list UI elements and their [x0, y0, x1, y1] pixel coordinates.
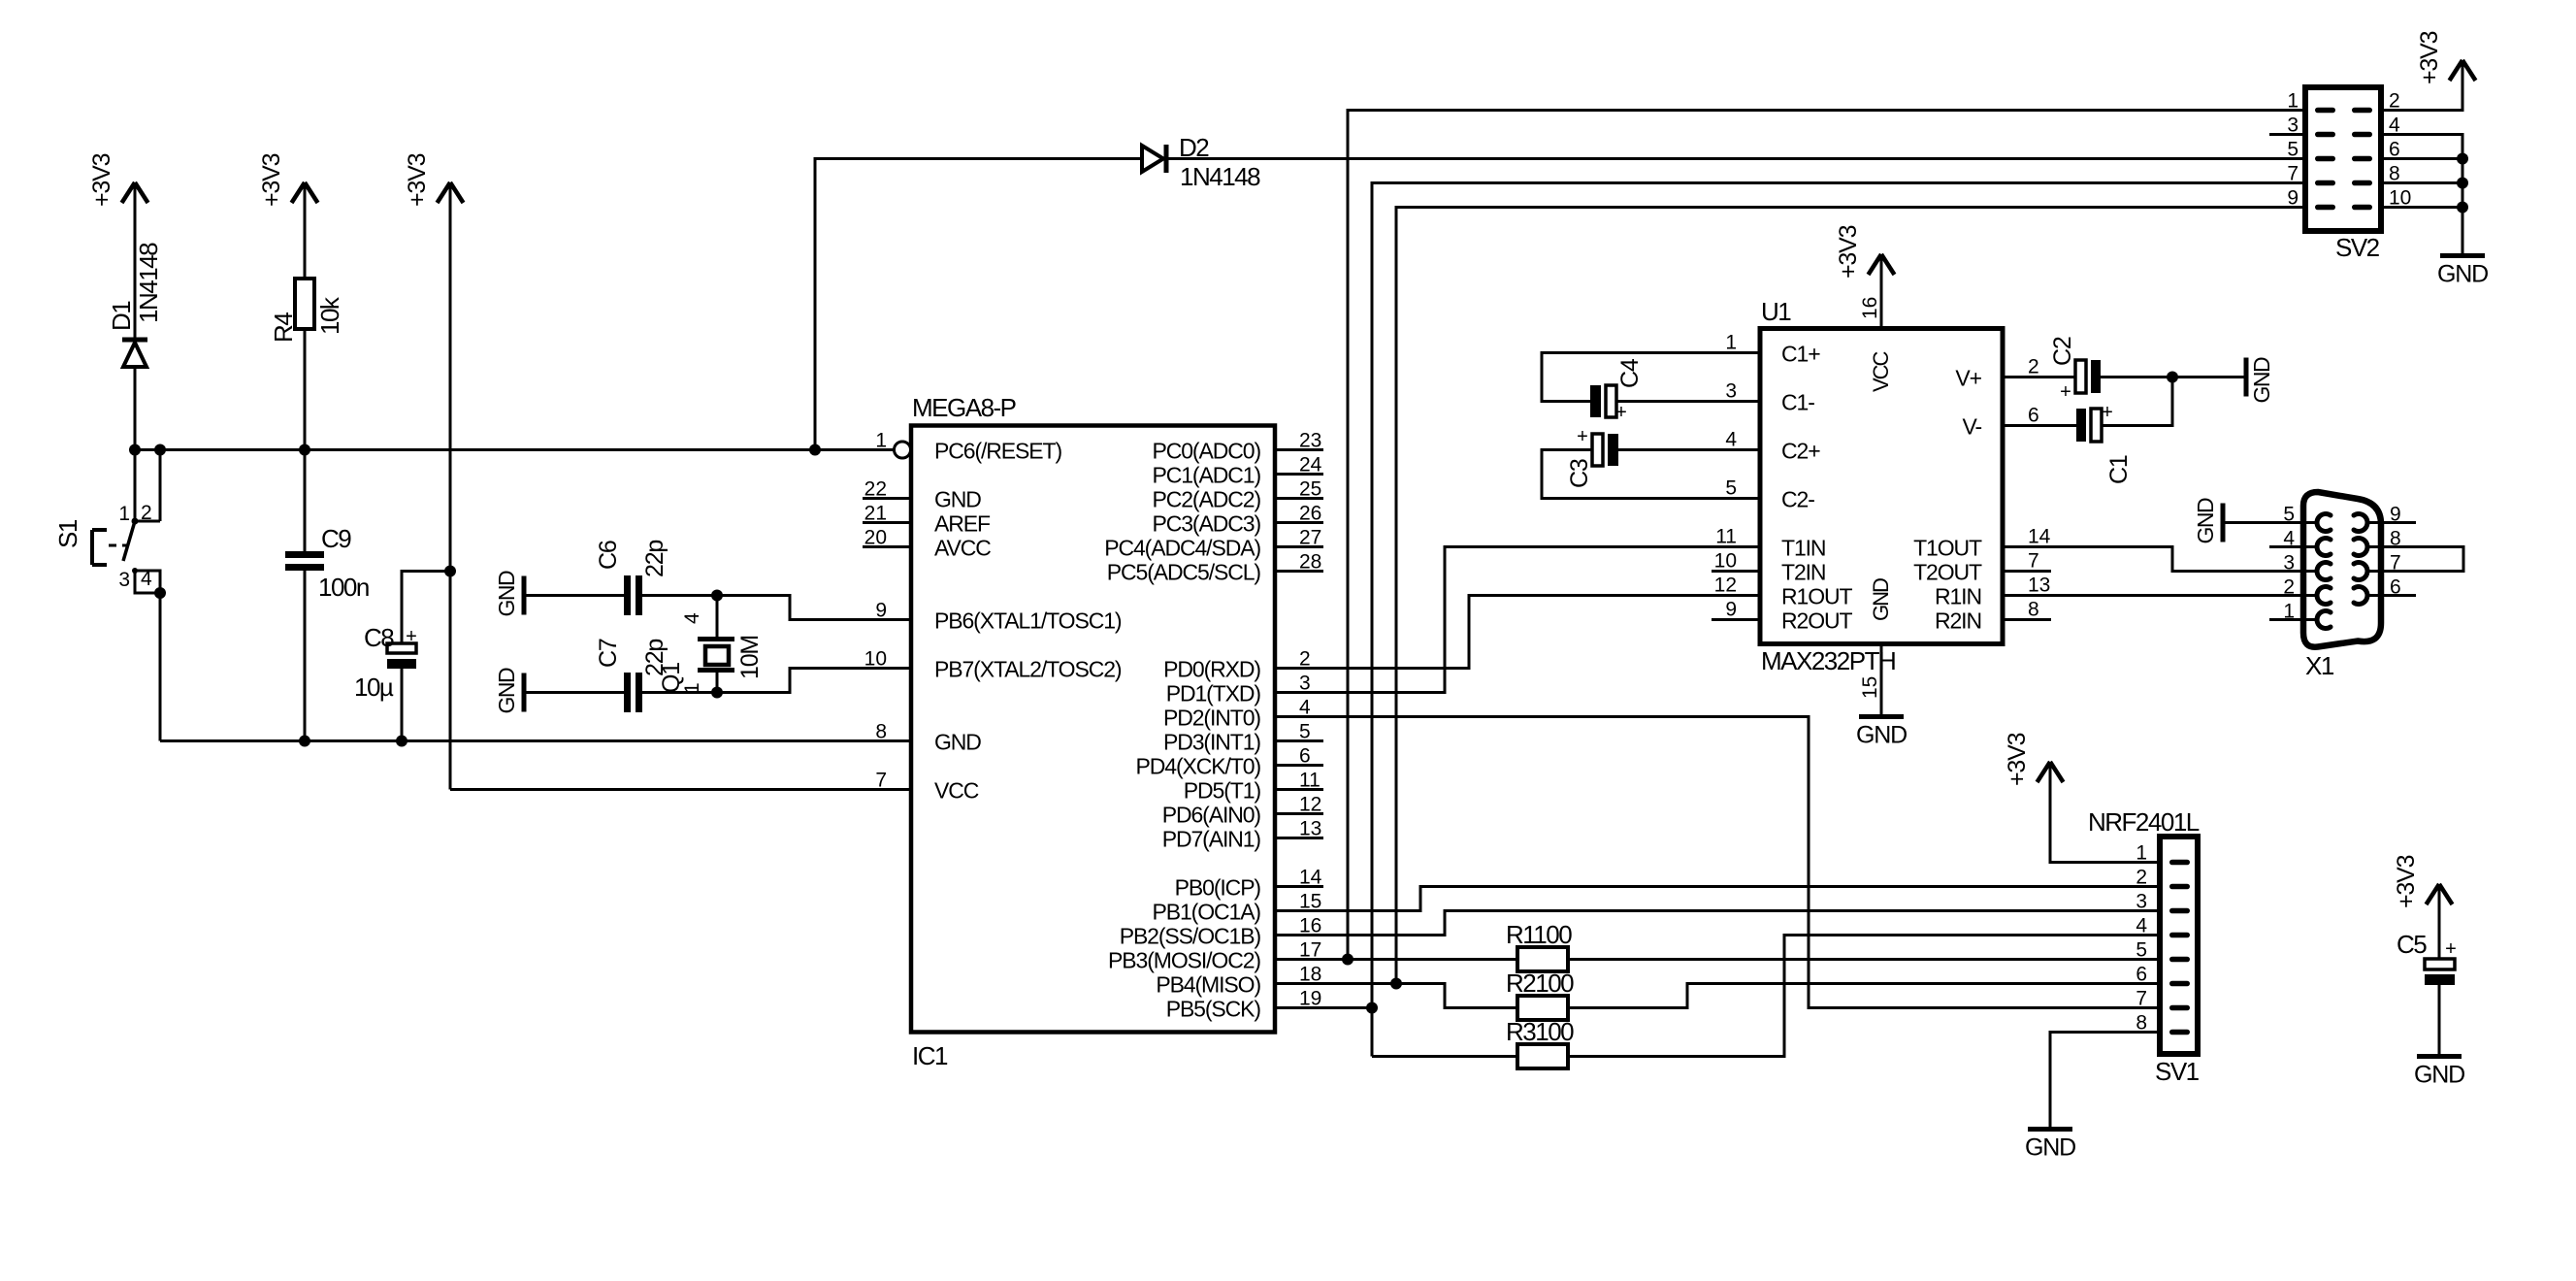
diode D1 [122, 340, 147, 367]
wire VCC to IC1 pin 7 [450, 788, 911, 791]
svg-text:PD6(AIN0): PD6(AIN0) [1162, 803, 1261, 828]
wire R1 to SV1 pin 5 [1568, 958, 2160, 961]
svg-text:GND: GND [1856, 722, 1907, 749]
wire rail to D2 [815, 159, 1142, 450]
svg-text:22: 22 [864, 478, 887, 501]
svg-text:9: 9 [1725, 599, 1737, 621]
svg-text:2: 2 [2283, 576, 2295, 599]
diode D2 [1142, 145, 1166, 173]
power +3V3 arrow (C5) [2427, 884, 2453, 904]
svg-text:4: 4 [2283, 528, 2295, 550]
wire U1 C2- loop [1542, 450, 1760, 499]
svg-text:9: 9 [2287, 187, 2299, 210]
pin mark SV1 3 [2169, 908, 2190, 914]
resistor R1 [1517, 947, 1568, 971]
pin contact X1 2 (left arc) [2317, 587, 2331, 605]
svg-text:3: 3 [2136, 891, 2147, 913]
svg-text:GND: GND [494, 668, 519, 714]
pin mark SV1 2 [2169, 884, 2190, 890]
svg-text:R2OUT: R2OUT [1781, 608, 1853, 634]
svg-text:4: 4 [2136, 915, 2147, 937]
svg-text:16: 16 [1859, 297, 1881, 319]
wire SV2 pin 4 to GND [2381, 135, 2462, 256]
svg-text:6: 6 [2390, 576, 2401, 599]
junction SCK [1366, 1002, 1378, 1014]
svg-text:3: 3 [2283, 552, 2295, 575]
svg-text:U1: U1 [1761, 297, 1791, 326]
wire IC1 pin 18 PB4/MISO to R2 [1275, 984, 1517, 1008]
junction XTAL2 node [711, 687, 723, 699]
svg-text:+3V3: +3V3 [88, 153, 115, 207]
pin stub 20 (IC1) [863, 545, 911, 548]
wire +3V3 to C5 [2438, 884, 2441, 959]
svg-text:+: + [1577, 426, 1588, 447]
wire SV2 pin 8 [2381, 181, 2462, 184]
svg-text:C8: C8 [364, 623, 394, 652]
pin stub X1 pin 4 [2269, 545, 2319, 548]
junction SV2 pin 6 [2457, 153, 2468, 165]
svg-text:+: + [2060, 381, 2071, 403]
svg-text:5: 5 [2136, 939, 2147, 962]
svg-text:8: 8 [875, 721, 887, 743]
pin stub 25 (IC1) [1275, 497, 1323, 500]
svg-text:7: 7 [875, 770, 887, 792]
svg-text:PC3(ADC3): PC3(ADC3) [1152, 511, 1260, 537]
power +3V3 arrow (VCC branch) [438, 182, 464, 203]
svg-text:20: 20 [864, 527, 887, 549]
svg-text:5: 5 [2287, 139, 2299, 161]
wire U1 V- to C1 [2003, 424, 2076, 427]
svg-text:+3V3: +3V3 [2004, 733, 2031, 786]
svg-text:PC0(ADC0): PC0(ADC0) [1152, 439, 1260, 464]
svg-text:T1IN: T1IN [1781, 536, 1825, 561]
ground GND (U1) [1856, 717, 1907, 749]
capacitor C7 [624, 673, 642, 712]
wire C9 to GND rail [304, 571, 307, 741]
svg-text:+3V3: +3V3 [258, 153, 285, 207]
svg-text:+3V3: +3V3 [2416, 31, 2443, 84]
wire +3V3 to D1 [134, 182, 137, 338]
pin stub X1 pin 6 [2365, 594, 2416, 597]
svg-text:1: 1 [2287, 90, 2299, 113]
svg-text:14: 14 [1299, 867, 1322, 889]
pin stub 27 (IC1) [1275, 545, 1323, 548]
svg-text:GND: GND [2414, 1062, 2464, 1089]
wire R2 to SV1 pin 6 [1568, 984, 2160, 1008]
net rail RESET [135, 448, 894, 451]
svg-text:PC2(ADC2): PC2(ADC2) [1152, 487, 1260, 512]
pin contact X1 1 (left arc) [2317, 611, 2331, 629]
pin contact X1 8 (right arc) [2354, 539, 2367, 556]
svg-text:13: 13 [1299, 818, 1321, 840]
ground GND (C6) [494, 571, 524, 617]
pin mark SV1 6 [2169, 981, 2190, 987]
svg-text:15: 15 [1859, 676, 1881, 699]
svg-text:11: 11 [1715, 526, 1737, 548]
svg-text:PB4(MISO): PB4(MISO) [1156, 972, 1260, 998]
svg-text:1: 1 [681, 682, 703, 694]
resistor R2 [1517, 996, 1568, 1020]
wire IC1 pin 16 PB2 to SV1 pin 3 [1275, 911, 2160, 936]
svg-text:+: + [2102, 402, 2113, 423]
wire C7 to XTAL2 node [642, 691, 717, 694]
svg-text:C1-: C1- [1781, 390, 1814, 415]
svg-text:X1: X1 [2305, 651, 2334, 680]
svg-text:C3: C3 [1566, 459, 1593, 488]
pin stub T2IN (U1) [1712, 570, 1760, 573]
svg-text:1: 1 [875, 430, 887, 452]
svg-text:GND: GND [934, 487, 981, 512]
svg-text:1: 1 [1725, 332, 1737, 354]
svg-text:7: 7 [2390, 552, 2401, 575]
pin stub 13 (IC1) [1275, 837, 1323, 839]
svg-text:26: 26 [1299, 503, 1321, 525]
svg-text:+: + [406, 626, 417, 647]
pin stub 22 (IC1) [863, 497, 911, 500]
svg-text:100n: 100n [318, 573, 369, 602]
svg-text:T1OUT: T1OUT [1913, 536, 1982, 561]
wire GND to X1 pin 5 [2223, 521, 2319, 524]
pin stub 12 (IC1) [1275, 812, 1323, 815]
wire SV2 pin 2 to +3V3 [2381, 60, 2462, 111]
wire C5 to GND [2438, 985, 2441, 1057]
svg-text:+: + [1615, 402, 1627, 423]
wire C8 to GND rail [401, 669, 404, 741]
capacitor C4 [1590, 385, 1616, 417]
svg-text:PD2(INT0): PD2(INT0) [1163, 706, 1260, 731]
svg-text:NRF2401L: NRF2401L [2088, 807, 2200, 837]
svg-text:13: 13 [2028, 575, 2050, 597]
svg-text:C2+: C2+ [1781, 439, 1820, 464]
svg-text:C4: C4 [1616, 358, 1644, 388]
wire U1 C1+ loop [1542, 353, 1760, 402]
wire +3V3 to R4 [304, 182, 307, 279]
wire IC1 pin 3 TXD to U1 T1IN [1275, 547, 1760, 693]
svg-text:6: 6 [2136, 964, 2147, 986]
svg-text:GND: GND [2249, 357, 2274, 404]
ground GND (C5) [2414, 1057, 2464, 1089]
junction R4/rail [299, 444, 310, 456]
wire IC1 pin 4 INT0 to SV1 pin 7 [1275, 717, 2160, 1008]
wire +3V3 VCC vertical [449, 182, 452, 790]
wire X1 pin 8 to pin 7 [2365, 547, 2463, 572]
resistor R4 [295, 279, 314, 329]
pin stub R2IN (U1) [2003, 618, 2051, 621]
junction VCC/C8 [444, 566, 456, 577]
svg-text:GND: GND [2193, 498, 2218, 544]
svg-text:7: 7 [2287, 163, 2299, 185]
svg-text:+3V3: +3V3 [1835, 225, 1862, 279]
svg-text:7: 7 [2136, 988, 2147, 1010]
wire C4 to U1 C1- [1616, 400, 1760, 403]
pin mark SV2 8 [2352, 181, 2372, 186]
svg-text:R3100: R3100 [1506, 1017, 1574, 1046]
svg-text:PB6(XTAL1/TOSC1): PB6(XTAL1/TOSC1) [934, 608, 1122, 634]
svg-text:C6: C6 [595, 541, 622, 570]
pin mark SV2 9 [2315, 205, 2335, 211]
pin mark SV1 5 [2169, 957, 2190, 963]
svg-text:R1OUT: R1OUT [1781, 584, 1853, 609]
pin stub 6 (IC1) [1275, 764, 1323, 767]
svg-text:+3V3: +3V3 [404, 153, 431, 207]
wire U1 V+ to C2 [2003, 376, 2075, 378]
svg-text:S1: S1 [53, 519, 82, 548]
svg-text:10µ: 10µ [354, 673, 394, 702]
connector X1 body [2303, 492, 2381, 647]
capacitor C6 [624, 575, 642, 615]
pin mark SV2 4 [2352, 132, 2372, 138]
svg-text:PD4(XCK/T0): PD4(XCK/T0) [1136, 754, 1261, 779]
ground GND (SV1) [2025, 1130, 2075, 1162]
svg-text:4: 4 [141, 568, 152, 590]
IC U1 MAX232PTH body [1760, 329, 2003, 644]
wire IC1 pin 15 PB1 to SV1 pin 2 [1275, 887, 2160, 911]
svg-text:R1IN: R1IN [1935, 584, 1981, 609]
pin contact X1 5 (left arc) [2317, 514, 2331, 532]
pin contact X1 6 (right arc) [2354, 587, 2367, 605]
svg-text:6: 6 [2028, 405, 2039, 427]
svg-text:PD7(AIN1): PD7(AIN1) [1162, 827, 1261, 852]
pin mark SV2 7 [2315, 181, 2335, 186]
IC IC1 MEGA8-P body [911, 426, 1275, 1033]
connector SV1 body [2160, 837, 2198, 1054]
wire S1 pin4 to GND rail [159, 593, 162, 741]
pin mark SV1 8 [2169, 1030, 2190, 1035]
net rail GND [160, 739, 911, 742]
svg-text:R2IN: R2IN [1935, 608, 1981, 634]
junction XTAL1 node [711, 590, 723, 602]
svg-text:1: 1 [118, 503, 130, 525]
pin stub 23 (IC1) [1275, 448, 1323, 451]
pin stub 5 (IC1) [1275, 739, 1323, 742]
wire +3V3 to SV1 pin 1 [2050, 762, 2160, 863]
pin mark SV2 10 [2352, 205, 2372, 211]
pin mark SV2 6 [2352, 156, 2372, 162]
power +3V3 arrow (R4 branch) [292, 182, 318, 203]
pin stub 14 (IC1) [1275, 885, 1323, 888]
svg-text:PD3(INT1): PD3(INT1) [1163, 730, 1260, 755]
svg-text:GND: GND [1869, 578, 1893, 621]
pin mark SV1 1 [2169, 860, 2190, 866]
svg-text:PC1(ADC1): PC1(ADC1) [1152, 463, 1260, 488]
svg-text:GND: GND [2025, 1134, 2075, 1162]
svg-text:5: 5 [1725, 477, 1737, 500]
pin stub 26 (IC1) [1275, 521, 1323, 524]
power +3V3 arrow (SV1) [2038, 762, 2064, 782]
wire D2 to SV2 pin 5 [1167, 157, 2305, 160]
wire IC1 pin 2 RXD to U1 R1OUT [1275, 596, 1760, 669]
svg-text:+: + [2445, 938, 2457, 960]
wire C1 to junction [2102, 378, 2172, 426]
junction C8/GND rail [396, 736, 408, 747]
wire SV2 pin 6 [2381, 157, 2462, 160]
wire R3 to SV1 pin 4 [1568, 936, 2160, 1057]
svg-text:IC1: IC1 [912, 1041, 948, 1070]
wire rail to C9 [304, 450, 307, 552]
svg-text:3: 3 [1725, 380, 1737, 403]
svg-text:4: 4 [1725, 429, 1737, 451]
svg-text:8: 8 [2390, 528, 2401, 550]
wire SV2 pin 7 to IC1 pin 19 (SCK) [1372, 183, 2305, 1057]
junction D2 branch/rail [809, 444, 821, 456]
svg-text:PB7(XTAL2/TOSC2): PB7(XTAL2/TOSC2) [934, 657, 1122, 682]
wire U1 T1OUT to X1 pin 3 [2003, 547, 2319, 572]
connector SV2 body [2305, 87, 2381, 231]
pin stub X1 pin 1 [2269, 618, 2319, 621]
pin mark SV2 2 [2352, 108, 2372, 114]
svg-text:24: 24 [1299, 454, 1322, 476]
capacitor C8 [387, 643, 416, 669]
svg-text:PB3(MOSI/OC2): PB3(MOSI/OC2) [1108, 948, 1260, 973]
power +3V3 arrow (D1 branch) [122, 182, 148, 203]
svg-text:GND: GND [934, 730, 981, 755]
svg-text:GND: GND [2437, 261, 2488, 288]
svg-text:28: 28 [1299, 551, 1321, 574]
svg-text:4: 4 [681, 612, 703, 624]
svg-text:10M: 10M [736, 636, 764, 679]
pin mark SV2 5 [2315, 156, 2335, 162]
wire GND to C7 [524, 691, 624, 694]
svg-text:1N4148: 1N4148 [134, 243, 163, 323]
svg-text:V-: V- [1962, 414, 1981, 440]
svg-text:C2: C2 [2049, 337, 2076, 366]
svg-text:10: 10 [1714, 550, 1737, 573]
svg-text:VCC: VCC [934, 778, 979, 804]
wire IC1 pin 17 PB3 to R1 [1275, 958, 1517, 961]
svg-text:PB2(SS/OC1B): PB2(SS/OC1B) [1120, 924, 1261, 949]
svg-text:11: 11 [1299, 770, 1321, 792]
svg-text:T2IN: T2IN [1781, 560, 1825, 585]
wire SV1 pin 8 to GND [2050, 1033, 2160, 1130]
svg-text:22p: 22p [641, 541, 668, 577]
pin mark SV1 7 [2169, 1005, 2190, 1011]
wire XTAL1 to IC1 pin 9 [717, 596, 911, 620]
svg-text:SV1: SV1 [2155, 1057, 2200, 1086]
svg-text:C5: C5 [2397, 930, 2427, 959]
pin mark SV1 4 [2169, 933, 2190, 938]
pin 1 inversion bubble (IC1) [895, 442, 911, 458]
ground GND (SV2) [2437, 256, 2488, 288]
svg-text:T2OUT: T2OUT [1913, 560, 1982, 585]
svg-text:MAX232PTH: MAX232PTH [1761, 646, 1895, 675]
svg-text:23: 23 [1299, 430, 1321, 452]
svg-text:7: 7 [2028, 550, 2039, 573]
pin mark SV2 1 [2315, 108, 2335, 114]
pin stub 24 (IC1) [1275, 473, 1323, 476]
pin stub T2OUT (U1) [2003, 570, 2051, 573]
power +3V3 arrow (SV2) [2450, 60, 2476, 81]
svg-text:12: 12 [1299, 794, 1321, 816]
capacitor C3 [1592, 434, 1618, 466]
pin contact X1 7 (right arc) [2354, 563, 2367, 580]
svg-text:+3V3: +3V3 [2393, 855, 2420, 908]
junction C9/GND rail [299, 736, 310, 747]
wire U1 R1IN to X1 pin 2 [2003, 594, 2319, 597]
svg-text:PB5(SCK): PB5(SCK) [1166, 997, 1261, 1022]
svg-text:PD5(T1): PD5(T1) [1184, 778, 1261, 804]
wire SV2 pin 9 to IC1 pin 18 (MISO) [1396, 208, 2305, 984]
svg-text:VCC: VCC [1869, 350, 1893, 392]
capacitor C1 [2076, 409, 2102, 442]
svg-text:V+: V+ [1955, 366, 1981, 391]
svg-text:D1: D1 [107, 301, 136, 331]
svg-text:C1: C1 [2105, 455, 2133, 484]
svg-text:5: 5 [1299, 721, 1311, 743]
pin contact X1 9 (right arc) [2354, 514, 2367, 532]
pin contact X1 4 (left arc) [2317, 539, 2331, 556]
svg-text:1N4148: 1N4148 [1180, 162, 1260, 191]
svg-text:25: 25 [1299, 478, 1321, 501]
svg-text:9: 9 [2390, 504, 2401, 526]
wire C6 to XTAL1 node [642, 594, 717, 597]
svg-text:1: 1 [2283, 601, 2295, 623]
svg-text:AVCC: AVCC [934, 536, 991, 561]
svg-text:C7: C7 [595, 639, 622, 668]
svg-text:GND: GND [494, 571, 519, 617]
svg-text:PD1(TXD): PD1(TXD) [1166, 681, 1261, 706]
crystal Q1 [698, 596, 734, 693]
wire C2 to GND [2101, 376, 2246, 378]
wire XTAL2 to IC1 pin 10 [717, 669, 911, 693]
svg-text:PD0(RXD): PD0(RXD) [1163, 657, 1260, 682]
svg-text:5: 5 [2283, 504, 2295, 526]
svg-text:R4: R4 [269, 312, 298, 343]
pin stub 21 (IC1) [863, 521, 911, 524]
svg-text:2: 2 [2028, 356, 2039, 378]
capacitor C9 [285, 551, 324, 571]
junction S1 box [154, 587, 166, 599]
pin stub SV2 pin 3 [2269, 133, 2305, 136]
svg-text:PC5(ADC5/SCL): PC5(ADC5/SCL) [1107, 560, 1261, 585]
svg-text:R2100: R2100 [1506, 969, 1574, 998]
pin contact X1 3 (left arc) [2317, 563, 2331, 580]
svg-text:6: 6 [1299, 745, 1311, 768]
svg-text:PB1(OC1A): PB1(OC1A) [1152, 900, 1260, 925]
svg-text:3: 3 [2287, 115, 2299, 137]
ground GND (X1) [2193, 498, 2223, 544]
ground GND (C2) [2246, 357, 2274, 404]
svg-text:27: 27 [1299, 527, 1321, 549]
svg-text:21: 21 [864, 503, 887, 525]
svg-text:2: 2 [2136, 867, 2147, 889]
svg-text:SV2: SV2 [2335, 233, 2380, 262]
svg-text:3: 3 [118, 569, 130, 591]
svg-text:10k: 10k [315, 296, 344, 335]
capacitor C5 [2425, 959, 2455, 985]
capacitor C2 [2075, 360, 2101, 393]
svg-text:PC4(ADC4/SDA): PC4(ADC4/SDA) [1104, 536, 1260, 561]
junction SV2 pin 10 [2457, 202, 2468, 213]
wire C3 to U1 C2+ [1618, 448, 1760, 451]
svg-text:PB0(ICP): PB0(ICP) [1175, 875, 1261, 901]
junction SV2 pin 8 [2457, 178, 2468, 189]
pin mark SV2 3 [2315, 132, 2335, 138]
wire SV2 pin 1 to IC1 pin 17 (MOSI) [1348, 111, 2305, 960]
wire R4 to reset rail [304, 329, 307, 450]
ground GND (C7) [494, 668, 524, 714]
svg-text:C9: C9 [321, 524, 351, 553]
svg-text:8: 8 [2028, 599, 2039, 621]
wire C8 to VCC [402, 572, 450, 644]
svg-text:AREF: AREF [934, 511, 991, 537]
wire SCK to R3 [1372, 1055, 1517, 1058]
svg-text:C1+: C1+ [1781, 342, 1820, 367]
junction MISO [1390, 978, 1402, 990]
pin stub X1 pin 9 [2365, 521, 2416, 524]
pin stub 11 (IC1) [1275, 788, 1323, 791]
junction S1 pin2/rail [154, 444, 166, 456]
wire GND to C6 [524, 594, 624, 597]
